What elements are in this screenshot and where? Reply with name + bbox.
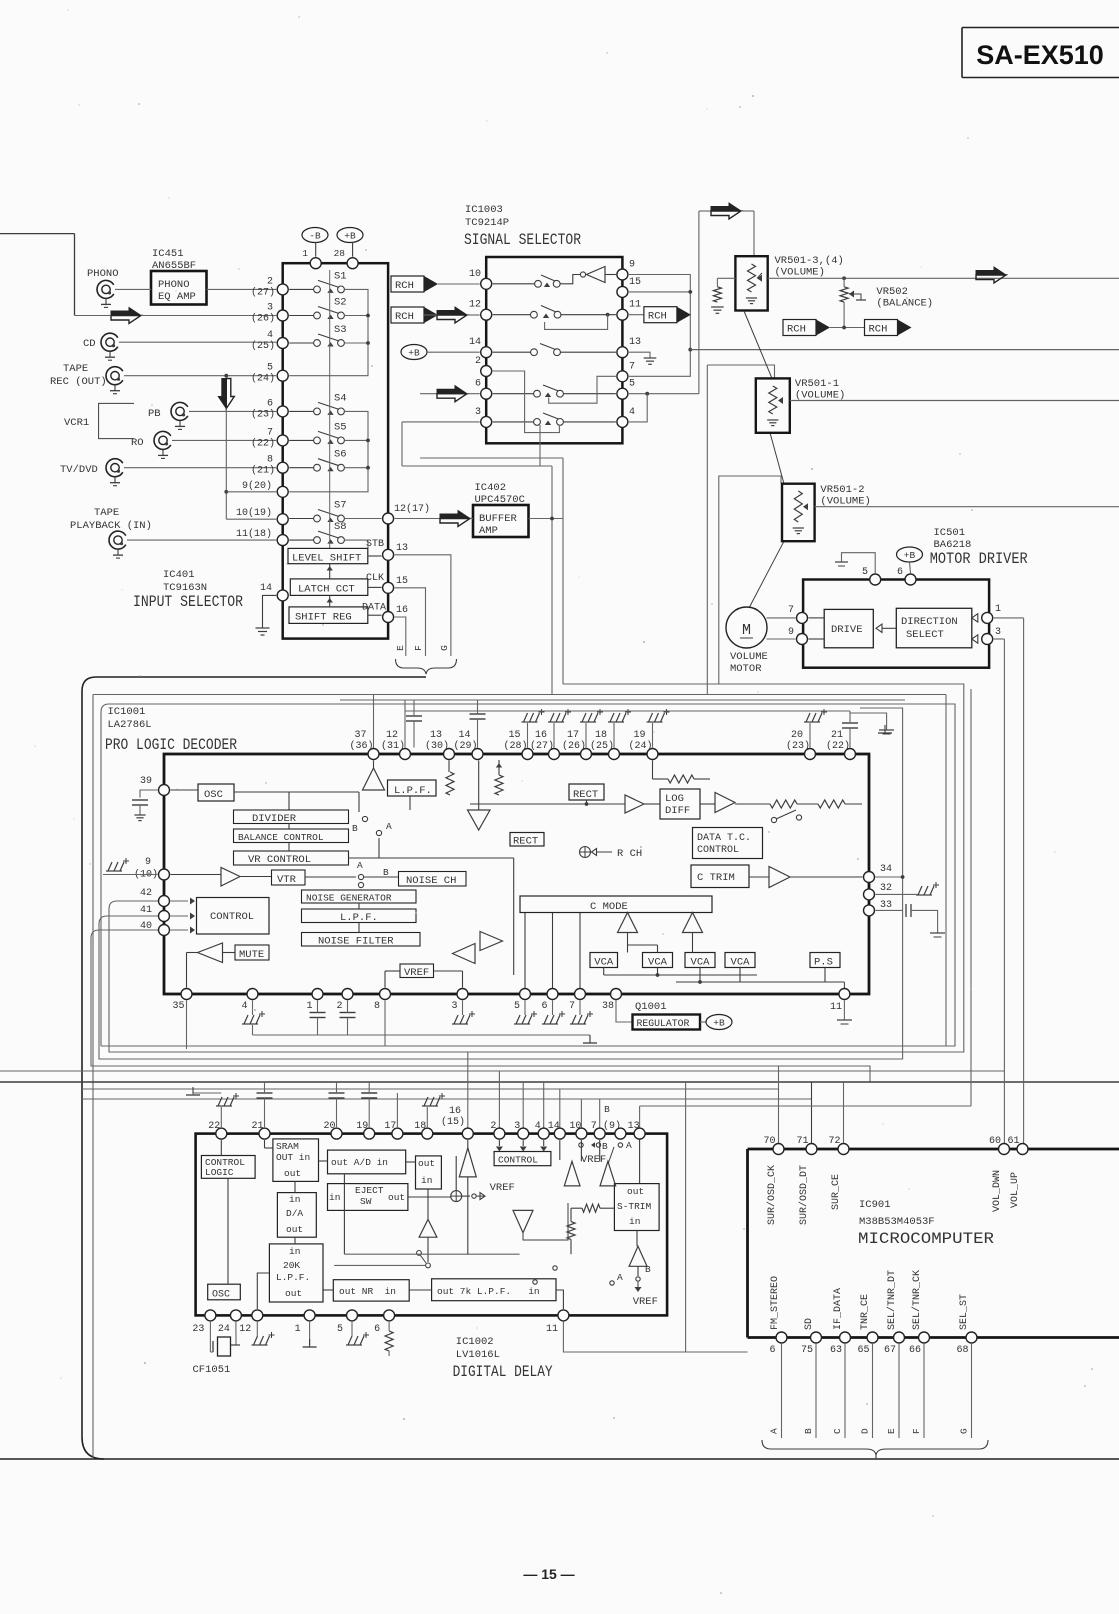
svg-text:S7: S7	[334, 500, 347, 512]
svg-text:RCH: RCH	[869, 324, 888, 336]
svg-text:(30): (30)	[425, 740, 449, 752]
svg-text:VR501-3,(4): VR501-3,(4)	[775, 255, 844, 267]
svg-text:65: 65	[857, 1345, 869, 1356]
svg-text:(24): (24)	[251, 373, 275, 385]
svg-text:24: 24	[218, 1324, 230, 1335]
svg-text:A: A	[617, 1272, 623, 1283]
svg-text:10: 10	[569, 1121, 581, 1132]
svg-text:(15): (15)	[441, 1116, 465, 1128]
svg-text:L.P.F.: L.P.F.	[340, 912, 378, 924]
svg-text:RO: RO	[131, 437, 144, 449]
svg-text:NOISE FILTER: NOISE FILTER	[318, 936, 394, 948]
svg-text:B: B	[383, 867, 389, 878]
svg-text:out NR in: out NR in	[339, 1286, 396, 1297]
svg-text:RCH: RCH	[395, 280, 414, 292]
svg-text:11: 11	[546, 1324, 558, 1335]
svg-text:66: 66	[909, 1345, 921, 1356]
svg-text:17: 17	[384, 1121, 396, 1132]
svg-text:IF_DATA: IF_DATA	[833, 1288, 844, 1330]
svg-text:DIRECTION: DIRECTION	[901, 616, 958, 628]
svg-text:9: 9	[629, 260, 635, 271]
svg-text:out: out	[286, 1224, 303, 1235]
svg-text:4: 4	[241, 1001, 247, 1012]
svg-text:4: 4	[535, 1121, 541, 1132]
svg-text:10: 10	[469, 269, 481, 280]
svg-text:REGULATOR: REGULATOR	[637, 1018, 690, 1029]
svg-text:SUR/OSD_CK: SUR/OSD_CK	[766, 1165, 778, 1225]
svg-text:VTR: VTR	[277, 874, 297, 886]
svg-text:S3: S3	[334, 324, 347, 336]
svg-text:PHONO: PHONO	[87, 268, 119, 280]
svg-text:MOTOR: MOTOR	[730, 663, 762, 675]
svg-text:M38B53M4053F: M38B53M4053F	[859, 1216, 935, 1228]
svg-text:TAPE: TAPE	[94, 507, 119, 519]
svg-text:7: 7	[569, 1001, 575, 1012]
svg-text:(26): (26)	[251, 313, 275, 325]
svg-text:VREF: VREF	[581, 1154, 606, 1166]
svg-text:BUFFER: BUFFER	[479, 513, 518, 525]
svg-text:MUTE: MUTE	[239, 949, 264, 961]
svg-text:SIGNAL SELECTOR: SIGNAL SELECTOR	[464, 231, 581, 249]
svg-text:38: 38	[602, 1001, 614, 1012]
svg-text:IC501: IC501	[934, 527, 966, 539]
svg-text:IC1001: IC1001	[108, 706, 146, 718]
svg-text:NOISE CH: NOISE CH	[406, 875, 456, 887]
svg-text:39: 39	[140, 776, 152, 787]
svg-text:(VOLUME): (VOLUME)	[795, 390, 845, 402]
svg-text:S-TRIM: S-TRIM	[617, 1201, 652, 1212]
svg-text:21: 21	[251, 1121, 263, 1132]
svg-text:2: 2	[490, 1121, 496, 1132]
svg-text:VCR1: VCR1	[64, 417, 89, 429]
svg-text:71: 71	[796, 1136, 808, 1147]
svg-text:9: 9	[788, 627, 794, 638]
svg-text:VR501-1: VR501-1	[795, 378, 839, 390]
svg-text:11: 11	[629, 300, 641, 311]
svg-text:RECT: RECT	[573, 789, 598, 801]
svg-text:— 15 —: — 15 —	[523, 1566, 574, 1582]
svg-text:PRO LOGIC DECODER: PRO LOGIC DECODER	[105, 736, 237, 754]
svg-text:CLK: CLK	[366, 573, 384, 584]
svg-text:22: 22	[208, 1121, 220, 1132]
svg-text:(VOLUME): (VOLUME)	[820, 496, 870, 508]
svg-text:(22): (22)	[251, 437, 275, 449]
svg-text:in: in	[289, 1246, 300, 1257]
svg-text:in: in	[329, 1192, 340, 1203]
svg-text:S8: S8	[334, 521, 347, 533]
svg-text:in: in	[629, 1216, 640, 1227]
svg-text:OSC: OSC	[212, 1290, 230, 1301]
svg-text:C MODE: C MODE	[590, 901, 628, 913]
svg-text:in: in	[289, 1194, 300, 1205]
svg-text:(31): (31)	[381, 740, 405, 752]
svg-text:3: 3	[451, 1001, 457, 1012]
svg-text:4: 4	[267, 330, 273, 341]
svg-text:DATA: DATA	[362, 603, 386, 614]
svg-text:12: 12	[469, 300, 481, 311]
svg-text:A: A	[357, 860, 363, 871]
svg-text:21: 21	[831, 730, 843, 741]
svg-text:6: 6	[267, 398, 273, 409]
svg-text:A: A	[626, 1140, 632, 1151]
svg-text:D: D	[860, 1428, 871, 1434]
svg-text:L.P.F.: L.P.F.	[394, 785, 432, 797]
svg-text:IC402: IC402	[475, 482, 507, 494]
svg-text:SD: SD	[804, 1318, 815, 1330]
svg-text:S6: S6	[334, 449, 347, 461]
svg-text:CONTROL: CONTROL	[697, 845, 739, 856]
svg-text:VCA: VCA	[731, 957, 751, 969]
svg-text:+B: +B	[344, 231, 356, 242]
svg-text:A: A	[769, 1428, 780, 1434]
svg-text:32: 32	[880, 883, 892, 894]
svg-text:SHIFT REG: SHIFT REG	[295, 612, 352, 624]
svg-text:1: 1	[302, 248, 308, 259]
svg-text:RCH: RCH	[648, 311, 667, 323]
svg-text:5: 5	[629, 379, 635, 390]
svg-text:VOL_DWN: VOL_DWN	[992, 1170, 1003, 1212]
svg-text:2: 2	[336, 1001, 342, 1012]
svg-text:CD: CD	[83, 338, 96, 350]
svg-text:CONTROL: CONTROL	[498, 1155, 538, 1166]
svg-text:OSC: OSC	[204, 789, 223, 801]
svg-text:out: out	[388, 1192, 405, 1203]
svg-text:P.S: P.S	[814, 957, 833, 969]
svg-text:(28): (28)	[503, 740, 527, 752]
svg-text:9(20): 9(20)	[242, 480, 272, 492]
svg-text:(22): (22)	[826, 740, 850, 752]
svg-text:out: out	[418, 1158, 435, 1169]
svg-text:+B: +B	[408, 348, 420, 359]
svg-text:CF1051: CF1051	[193, 1364, 231, 1376]
svg-text:6: 6	[897, 567, 903, 578]
svg-text:A: A	[386, 821, 392, 832]
svg-text:3: 3	[995, 627, 1001, 638]
svg-text:VOLUME: VOLUME	[730, 651, 768, 663]
svg-text:6: 6	[769, 1345, 775, 1356]
svg-text:6: 6	[541, 1001, 547, 1012]
svg-text:12: 12	[386, 730, 398, 741]
svg-text:L.P.F.: L.P.F.	[276, 1272, 310, 1283]
svg-text:NOISE GENERATOR: NOISE GENERATOR	[306, 893, 392, 904]
svg-text:B: B	[645, 1264, 651, 1275]
svg-text:VCA: VCA	[594, 957, 614, 969]
svg-text:IC1003: IC1003	[465, 204, 503, 216]
svg-text:B: B	[604, 1104, 610, 1115]
svg-text:R CH: R CH	[617, 848, 642, 860]
svg-text:DATA T.C.: DATA T.C.	[697, 833, 751, 844]
svg-text:VCA: VCA	[691, 957, 711, 969]
svg-text:SEL/TNR_CK: SEL/TNR_CK	[911, 1270, 923, 1330]
svg-text:SELECT: SELECT	[906, 629, 944, 641]
svg-text:TV/DVD: TV/DVD	[60, 464, 98, 476]
svg-text:12(17): 12(17)	[394, 503, 430, 515]
svg-text:SEL_ST: SEL_ST	[959, 1294, 970, 1330]
svg-text:70: 70	[763, 1136, 775, 1147]
svg-text:PLAYBACK (IN): PLAYBACK (IN)	[70, 520, 152, 532]
svg-text:14: 14	[458, 730, 470, 741]
svg-text:INPUT SELECTOR: INPUT SELECTOR	[133, 593, 243, 611]
svg-text:19: 19	[633, 730, 645, 741]
svg-text:out: out	[284, 1168, 301, 1179]
svg-text:14: 14	[260, 583, 272, 594]
svg-text:VOL_UP: VOL_UP	[1010, 1172, 1021, 1208]
svg-text:VR501-2: VR501-2	[820, 484, 864, 496]
svg-text:IC1002: IC1002	[456, 1336, 494, 1348]
svg-text:RCH: RCH	[395, 311, 414, 323]
svg-text:19: 19	[356, 1121, 368, 1132]
svg-text:15: 15	[508, 730, 520, 741]
svg-text:7: 7	[591, 1121, 597, 1132]
svg-text:(BALANCE): (BALANCE)	[876, 298, 933, 310]
svg-text:16: 16	[449, 1106, 461, 1117]
svg-text:VREF: VREF	[490, 1182, 515, 1194]
svg-text:RCH: RCH	[787, 324, 806, 336]
svg-text:SRAM: SRAM	[276, 1141, 299, 1152]
svg-text:34: 34	[880, 864, 892, 875]
svg-text:STB: STB	[366, 539, 384, 550]
svg-text:C TRIM: C TRIM	[697, 872, 735, 884]
svg-text:(25): (25)	[590, 740, 614, 752]
svg-text:3: 3	[514, 1121, 520, 1132]
svg-text:PB: PB	[148, 408, 161, 420]
svg-text:3: 3	[475, 407, 481, 418]
svg-text:20K: 20K	[283, 1260, 300, 1271]
svg-text:37: 37	[354, 730, 366, 741]
svg-text:VR CONTROL: VR CONTROL	[248, 854, 311, 866]
svg-text:5: 5	[267, 363, 273, 374]
svg-text:SEL/TNR_DT: SEL/TNR_DT	[886, 1270, 898, 1330]
svg-text:B: B	[602, 1141, 608, 1152]
svg-text:10(19): 10(19)	[236, 507, 272, 519]
svg-text:DIGITAL DELAY: DIGITAL DELAY	[453, 1363, 554, 1381]
svg-text:41: 41	[140, 905, 152, 916]
svg-text:8: 8	[267, 455, 273, 466]
svg-text:11: 11	[830, 1002, 842, 1013]
svg-text:IC451: IC451	[152, 248, 184, 260]
svg-text:15: 15	[396, 576, 408, 587]
svg-text:(25): (25)	[251, 340, 275, 352]
svg-text:18: 18	[595, 730, 607, 741]
svg-text:(VOLUME): (VOLUME)	[775, 267, 825, 279]
svg-text:7: 7	[267, 427, 273, 438]
svg-text:6: 6	[475, 379, 481, 390]
svg-text:(23): (23)	[251, 408, 275, 420]
svg-text:18: 18	[414, 1121, 426, 1132]
svg-text:13: 13	[628, 1121, 640, 1132]
svg-text:1: 1	[295, 1324, 301, 1335]
svg-text:VREF: VREF	[633, 1296, 658, 1308]
svg-text:42: 42	[140, 888, 152, 899]
svg-text:AMP: AMP	[479, 525, 498, 537]
svg-text:63: 63	[830, 1345, 842, 1356]
svg-text:out 7k L.P.F. in: out 7k L.P.F. in	[437, 1286, 540, 1297]
svg-text:5: 5	[514, 1001, 520, 1012]
svg-text:8: 8	[374, 1001, 380, 1012]
svg-text:RECT: RECT	[513, 836, 538, 848]
svg-text:28: 28	[334, 248, 346, 259]
svg-text:15: 15	[629, 277, 641, 288]
svg-text:out A/D in: out A/D in	[331, 1157, 388, 1168]
svg-text:IC401: IC401	[163, 569, 195, 581]
svg-text:S4: S4	[334, 392, 347, 404]
svg-text:F: F	[911, 1428, 922, 1434]
svg-text:CONTROL: CONTROL	[210, 911, 254, 923]
svg-text:F: F	[413, 645, 424, 651]
svg-text:LOG: LOG	[665, 793, 684, 805]
svg-text:-B: -B	[309, 231, 321, 242]
svg-text:G: G	[959, 1428, 970, 1434]
svg-text:(24): (24)	[628, 740, 652, 752]
svg-text:23: 23	[192, 1324, 204, 1335]
svg-text:4: 4	[629, 407, 635, 418]
svg-text:SUR/OSD_DT: SUR/OSD_DT	[798, 1165, 810, 1225]
svg-text:OUT in: OUT in	[276, 1152, 310, 1163]
svg-text:BALANCE CONTROL: BALANCE CONTROL	[238, 832, 324, 843]
svg-text:FM_STEREO: FM_STEREO	[770, 1276, 781, 1330]
svg-text:B: B	[352, 823, 358, 834]
svg-text:VREF: VREF	[404, 967, 429, 979]
svg-text:PHONO: PHONO	[158, 279, 190, 291]
svg-text:C: C	[832, 1428, 843, 1434]
svg-text:2: 2	[475, 356, 481, 367]
svg-text:40: 40	[140, 921, 152, 932]
svg-text:14: 14	[548, 1121, 560, 1132]
svg-text:VCA: VCA	[648, 957, 668, 969]
svg-text:LOGIC: LOGIC	[205, 1167, 234, 1178]
svg-text:2: 2	[267, 276, 273, 287]
svg-text:13: 13	[396, 543, 408, 554]
svg-text:33: 33	[880, 900, 892, 911]
svg-text:M: M	[742, 622, 751, 639]
svg-text:MOTOR DRIVER: MOTOR DRIVER	[930, 550, 1028, 568]
svg-text:61: 61	[1007, 1136, 1019, 1147]
svg-text:E: E	[395, 645, 406, 651]
svg-text:out: out	[285, 1288, 302, 1299]
svg-text:EJECT: EJECT	[355, 1185, 384, 1196]
svg-text:SUR_CE: SUR_CE	[831, 1174, 842, 1210]
svg-text:(21): (21)	[251, 465, 275, 477]
svg-text:6: 6	[374, 1324, 380, 1335]
svg-text:60: 60	[989, 1136, 1001, 1147]
svg-text:1: 1	[995, 604, 1001, 615]
svg-text:E: E	[886, 1428, 897, 1434]
svg-text:1: 1	[306, 1001, 312, 1012]
svg-text:SA-EX510: SA-EX510	[976, 40, 1104, 70]
svg-text:LATCH CCT: LATCH CCT	[298, 584, 355, 596]
svg-text:DIVIDER: DIVIDER	[252, 813, 297, 825]
svg-text:13: 13	[629, 337, 641, 348]
svg-text:67: 67	[884, 1345, 896, 1356]
svg-text:DRIVE: DRIVE	[831, 624, 863, 636]
svg-text:VR502: VR502	[876, 286, 908, 298]
svg-text:5: 5	[862, 567, 868, 578]
svg-text:S2: S2	[334, 297, 347, 309]
svg-text:75: 75	[801, 1345, 813, 1356]
svg-text:(27): (27)	[251, 286, 275, 298]
svg-text:9: 9	[145, 857, 151, 868]
svg-text:+B: +B	[713, 1018, 725, 1029]
svg-text:REC (OUT): REC (OUT)	[50, 376, 107, 388]
svg-text:TAPE: TAPE	[63, 363, 88, 375]
svg-text:14: 14	[469, 337, 481, 348]
svg-text:20: 20	[791, 730, 803, 741]
svg-text:11(18): 11(18)	[236, 528, 272, 540]
svg-text:TC9214P: TC9214P	[465, 217, 509, 229]
svg-text:TNR_CE: TNR_CE	[860, 1294, 871, 1330]
svg-text:(36): (36)	[349, 740, 373, 752]
svg-text:20: 20	[323, 1121, 335, 1132]
svg-text:+B: +B	[904, 550, 916, 561]
svg-text:D/A: D/A	[286, 1208, 303, 1219]
svg-text:17: 17	[567, 730, 579, 741]
svg-text:LA2786L: LA2786L	[108, 719, 152, 731]
svg-text:EQ AMP: EQ AMP	[158, 291, 196, 303]
svg-text:3: 3	[267, 303, 273, 314]
svg-text:B: B	[803, 1428, 814, 1434]
svg-text:35: 35	[172, 1001, 184, 1012]
svg-text:in: in	[421, 1175, 432, 1186]
svg-text:13: 13	[430, 730, 442, 741]
svg-text:IC901: IC901	[859, 1199, 891, 1211]
svg-text:5: 5	[337, 1324, 343, 1335]
svg-text:12: 12	[239, 1324, 251, 1335]
svg-text:S1: S1	[334, 270, 347, 282]
svg-text:LV1016L: LV1016L	[456, 1349, 500, 1361]
svg-text:16: 16	[396, 605, 408, 616]
svg-text:68: 68	[956, 1345, 968, 1356]
svg-text:MICROCOMPUTER: MICROCOMPUTER	[858, 1230, 994, 1248]
svg-text:7: 7	[788, 605, 794, 616]
svg-text:72: 72	[828, 1136, 840, 1147]
svg-text:(27): (27)	[530, 740, 554, 752]
svg-text:S5: S5	[334, 421, 347, 433]
svg-text:(23): (23)	[786, 740, 810, 752]
svg-text:16: 16	[535, 730, 547, 741]
svg-text:7: 7	[629, 361, 635, 372]
svg-text:out: out	[627, 1186, 644, 1197]
svg-text:Q1001: Q1001	[635, 1001, 667, 1013]
svg-text:(29): (29)	[453, 740, 477, 752]
svg-text:DIFF: DIFF	[665, 805, 690, 817]
svg-text:SW: SW	[360, 1196, 372, 1207]
svg-text:(26): (26)	[562, 740, 586, 752]
svg-text:LEVEL SHIFT: LEVEL SHIFT	[292, 553, 361, 565]
